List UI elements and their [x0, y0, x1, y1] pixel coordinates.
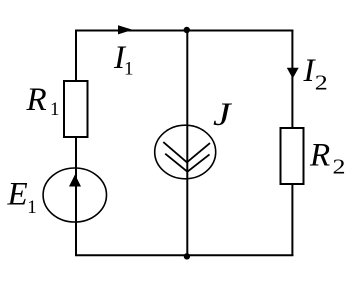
label R1: [26, 82, 60, 120]
svg-text:E: E: [7, 177, 28, 213]
label R2: [309, 138, 346, 179]
current source J circle: [155, 125, 216, 179]
arrow of E1 (emf direction up): [69, 175, 81, 187]
svg-text:1: 1: [27, 197, 37, 218]
resistor R1: [64, 81, 88, 137]
label I2: [303, 53, 328, 95]
svg-text:1: 1: [124, 59, 134, 80]
node top (junction dot): [184, 27, 190, 33]
wire right: [291, 30, 293, 257]
label J: [213, 97, 232, 133]
node bottom (junction dot): [184, 253, 190, 259]
wire middle: [186, 31, 188, 256]
resistor R2: [281, 128, 304, 184]
wire bottom: [75, 254, 293, 256]
svg-text:R: R: [309, 138, 330, 174]
svg-text:2: 2: [315, 71, 328, 95]
label E1: [7, 177, 37, 219]
current arrow I1: [118, 25, 133, 34]
svg-text:1: 1: [50, 99, 60, 120]
current arrow I2: [287, 68, 299, 79]
label I1: [113, 40, 134, 80]
svg-text:J: J: [213, 97, 232, 133]
wire top: [75, 30, 293, 32]
svg-text:2: 2: [333, 155, 346, 179]
voltage source E1 circle: [43, 168, 106, 222]
svg-text:R: R: [26, 82, 47, 118]
chevrons of J (current direction down): [163, 142, 210, 172]
wire left: [75, 30, 77, 257]
